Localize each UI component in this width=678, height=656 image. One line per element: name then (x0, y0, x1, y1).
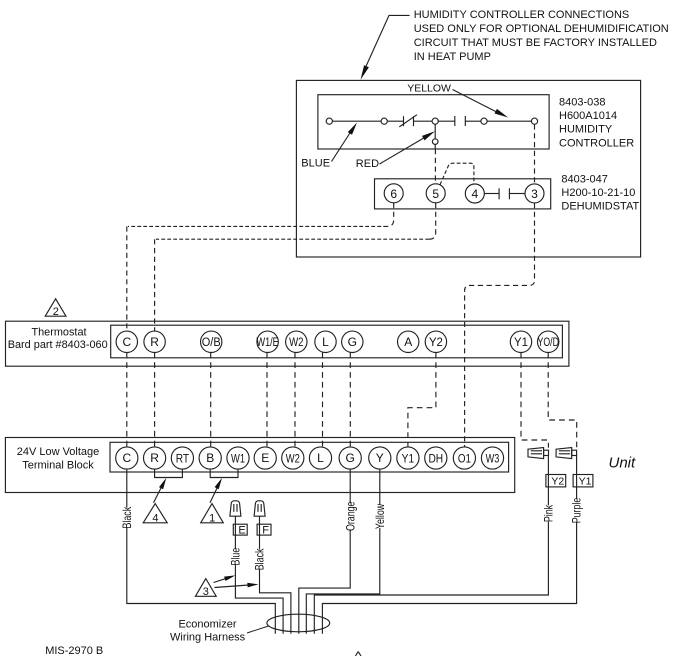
svg-text:2: 2 (53, 306, 59, 318)
svg-text:E: E (238, 525, 245, 537)
svg-text:R: R (150, 451, 159, 465)
svg-text:F: F (262, 525, 269, 537)
svg-text:Y1: Y1 (514, 336, 528, 349)
svg-text:CIRCUIT THAT MUST BE FACTORY I: CIRCUIT THAT MUST BE FACTORY INSTALLED (414, 37, 657, 49)
svg-text:O1: O1 (458, 452, 471, 465)
svg-text:CONTROLLER: CONTROLLER (559, 137, 634, 149)
svg-text:L: L (322, 335, 329, 349)
svg-text:Wiring Harness: Wiring Harness (170, 631, 246, 643)
svg-text:Black: Black (255, 548, 267, 570)
svg-text:4: 4 (152, 512, 158, 524)
svg-text:5: 5 (432, 187, 439, 201)
svg-text:YELLOW: YELLOW (407, 83, 451, 95)
svg-text:Bard part #8403-060: Bard part #8403-060 (8, 339, 108, 351)
svg-text:Orange: Orange (345, 501, 357, 531)
svg-text:Y1: Y1 (402, 453, 414, 466)
svg-text:RT: RT (176, 453, 190, 466)
svg-text:A: A (404, 335, 412, 349)
svg-text:Pink: Pink (544, 504, 556, 522)
svg-text:Black: Black (122, 506, 134, 528)
svg-text:Thermostat: Thermostat (31, 326, 86, 338)
svg-text:Y: Y (376, 451, 384, 465)
svg-text:Y2: Y2 (429, 336, 443, 349)
svg-text:W2: W2 (286, 452, 300, 465)
svg-text:G: G (348, 335, 357, 349)
svg-text:W1: W1 (231, 452, 245, 465)
svg-text:E: E (261, 451, 269, 465)
svg-text:G: G (346, 451, 355, 465)
svg-text:Purple: Purple (572, 497, 584, 523)
svg-text:O/B: O/B (202, 337, 221, 349)
svg-text:Y2: Y2 (551, 476, 564, 488)
svg-text:1: 1 (209, 512, 215, 524)
svg-text:RED: RED (356, 158, 379, 170)
svg-text:Y1: Y1 (579, 476, 592, 488)
svg-text:DEHUMIDSTAT: DEHUMIDSTAT (561, 201, 639, 213)
svg-text:4: 4 (471, 187, 478, 201)
svg-text:Blue: Blue (231, 547, 243, 565)
svg-text:MIS-2970 B: MIS-2970 B (45, 645, 103, 656)
svg-text:3: 3 (203, 586, 209, 598)
svg-text:8403-038: 8403-038 (559, 96, 606, 108)
svg-text:H200-10-21-10: H200-10-21-10 (561, 187, 635, 199)
svg-text:HUMIDITY CONTROLLER CONNECTION: HUMIDITY CONTROLLER CONNECTIONS (414, 9, 630, 21)
svg-text:BLUE: BLUE (301, 157, 330, 169)
svg-text:H600A1014: H600A1014 (559, 110, 617, 122)
svg-text:24V Low Voltage: 24V Low Voltage (17, 446, 100, 458)
svg-text:R: R (150, 335, 159, 349)
svg-text:Unit: Unit (609, 455, 637, 472)
svg-text:L: L (317, 451, 324, 465)
svg-text:8403-047: 8403-047 (561, 173, 608, 185)
svg-text:HUMIDITY: HUMIDITY (559, 124, 613, 136)
svg-text:C: C (122, 335, 131, 349)
svg-text:DH: DH (428, 453, 443, 466)
svg-text:3: 3 (531, 187, 538, 201)
svg-text:Terminal Block: Terminal Block (22, 460, 94, 472)
svg-text:Economizer: Economizer (178, 618, 236, 630)
svg-text:IN HEAT PUMP: IN HEAT PUMP (414, 51, 491, 63)
svg-text:6: 6 (390, 187, 397, 201)
svg-text:Yellow: Yellow (375, 503, 387, 529)
svg-text:USED ONLY FOR OPTIONAL DEHUMID: USED ONLY FOR OPTIONAL DEHUMIDIFICATION (414, 23, 669, 35)
svg-text:YO/D: YO/D (537, 336, 559, 350)
svg-text:W1/E: W1/E (256, 336, 278, 350)
svg-text:B: B (206, 451, 214, 465)
svg-text:C: C (122, 451, 131, 465)
svg-text:W2: W2 (289, 336, 303, 349)
svg-text:W3: W3 (486, 452, 500, 466)
